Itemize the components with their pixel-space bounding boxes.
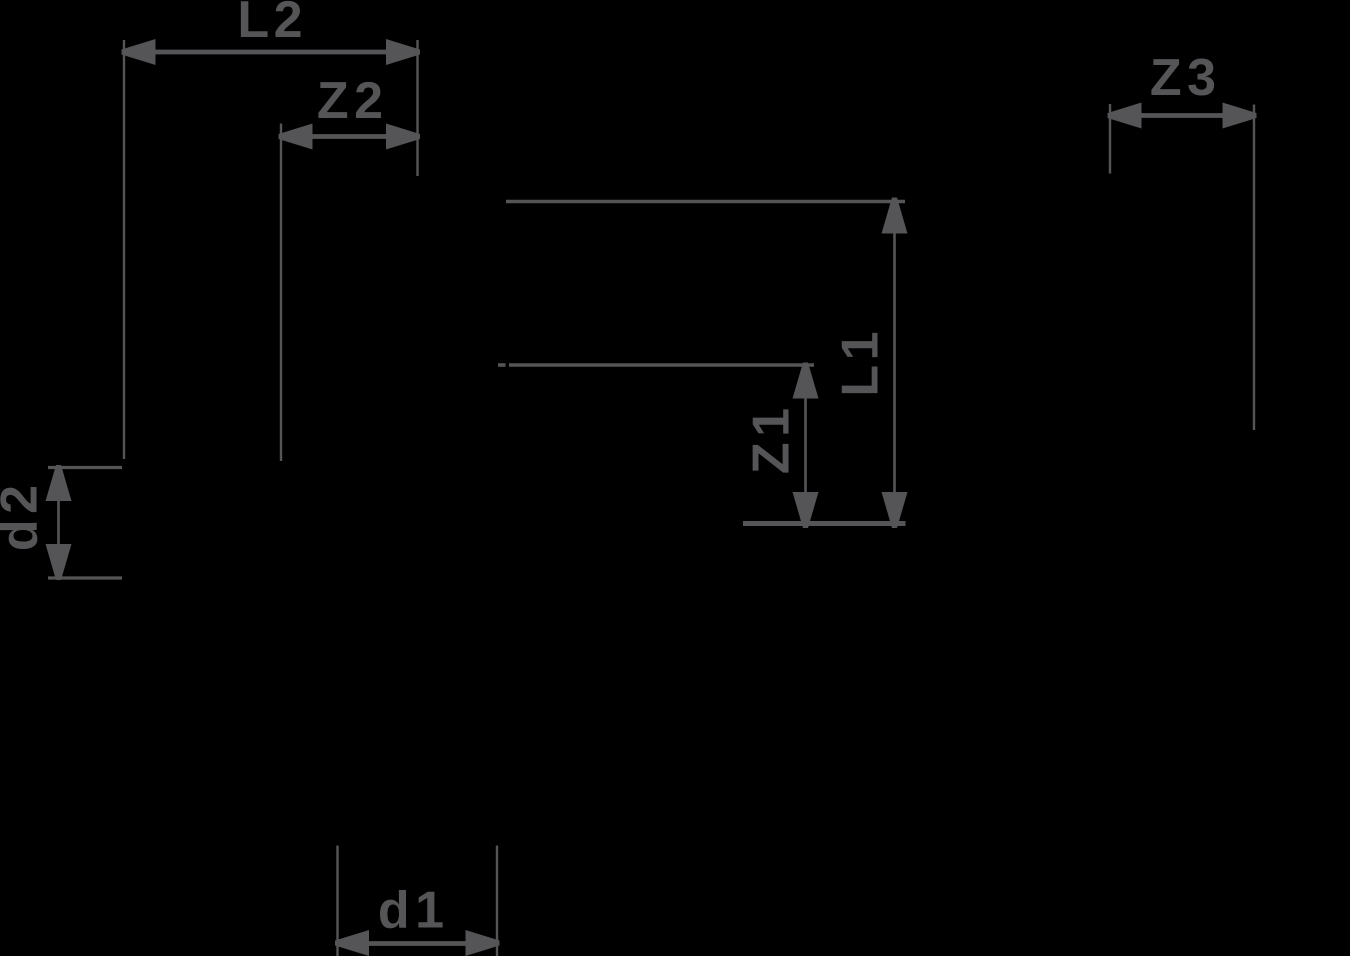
object line d2 bottom (48, 576, 122, 579)
arrowhead L2 left (122, 39, 156, 65)
arrowhead d2 up (46, 465, 72, 501)
svg-text:L 1: L 1 (832, 331, 890, 396)
extension line left of L2 (123, 40, 125, 459)
arrowhead d1 right (466, 930, 500, 956)
object line d2 top (48, 466, 122, 469)
extension line right of d1 (496, 846, 498, 956)
svg-text:Z 1: Z 1 (743, 408, 801, 474)
arrowhead Z1 up (793, 363, 819, 399)
extension line right of Z3 (1253, 105, 1255, 431)
dimension line Z2 (281, 134, 418, 139)
object line bottom (743, 521, 906, 526)
dimension line L2 (124, 50, 418, 55)
dimension line d1 (338, 941, 498, 946)
object line middle (509, 363, 814, 366)
object line middle dash (498, 363, 506, 367)
svg-text:Z 3: Z 3 (1150, 49, 1216, 107)
arrowhead Z1 down (793, 492, 819, 528)
svg-text:Z 2: Z 2 (317, 72, 383, 130)
svg-text:d 2: d 2 (0, 485, 49, 551)
extension line left of Z3 (1109, 104, 1111, 174)
arrowhead L2 right (386, 39, 420, 65)
arrowhead L1 down (882, 492, 908, 528)
extension line left of Z2 (280, 124, 282, 462)
arrowhead L1 up (882, 198, 908, 234)
arrowhead d1 left (335, 930, 369, 956)
dimension line Z1 (804, 366, 807, 522)
dimension line d2 (57, 469, 60, 578)
arrowhead Z3 right (1223, 103, 1257, 129)
svg-text:L 2: L 2 (237, 0, 302, 49)
object line top (506, 200, 905, 204)
dimension line L1 (893, 202, 896, 521)
arrowhead d2 down (46, 544, 72, 580)
svg-text:d 1: d 1 (378, 882, 444, 940)
extension line left of d1 (336, 846, 338, 956)
arrowhead Z2 right (386, 124, 420, 150)
arrowhead Z2 left (279, 124, 313, 150)
arrowhead Z3 left (1108, 103, 1142, 129)
dimension line Z3 (1110, 113, 1254, 118)
extension line right of L2 and Z2 (416, 40, 418, 176)
